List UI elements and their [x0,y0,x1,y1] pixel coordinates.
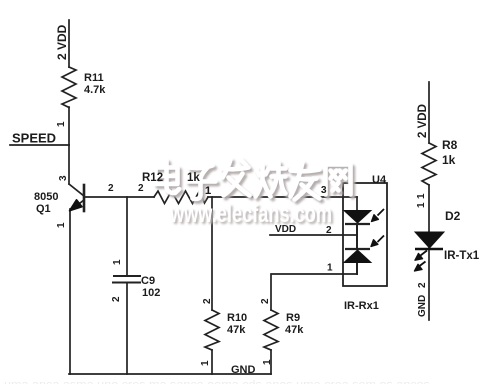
capacitor C9 [114,275,140,277]
svg-text:GND: GND [417,295,428,317]
wire SPEED stub [10,144,69,146]
svg-text:uma anca asma uno cres ma sanc: uma anca asma uno cres ma sanca oema cds… [4,379,431,384]
wire R10 to rail [211,350,213,374]
svg-text:1k: 1k [442,153,456,167]
U4 top diode arrow [378,209,385,216]
U4 box [343,183,387,286]
svg-text:R9: R9 [286,312,300,324]
wire VDD right top [428,82,430,143]
wire C9 to rail [126,283,128,374]
U4 bottom diode arrow [378,236,385,243]
resistor R10 [205,310,219,350]
svg-text:2: 2 [202,298,213,304]
svg-text:1: 1 [200,360,211,366]
svg-text:SPEED: SPEED [12,131,56,146]
transistor Q1 emitter diagonal [71,200,84,210]
svg-text:2: 2 [138,183,144,194]
watermark chinese characters (drawn, white with gray drop shadow) [156,160,354,231]
svg-text:1: 1 [56,222,67,228]
watermark glyph bodies [156,160,351,229]
wire U4 pin1 to R9 [271,274,357,310]
svg-text:3: 3 [321,185,327,196]
svg-text:D2: D2 [445,209,461,223]
resistor R11 [62,67,76,108]
svg-text:IR-Tx1: IR-Tx1 [444,250,480,262]
wire U4 internal bottom [356,262,358,274]
wire D2 to GND [428,248,430,320]
transistor Q1 base bar [83,185,86,211]
svg-text:1: 1 [205,185,211,197]
svg-text:www.elecfans.com: www.elecfans.com [169,200,332,228]
resistor R9 [264,310,278,350]
transistor Q1 collector wire [84,196,154,198]
wire node to C9 [126,197,128,275]
svg-text:2: 2 [260,298,271,304]
svg-text:IR-Rx1: IR-Rx1 [344,300,379,312]
photodiode U4 bottom diode [344,249,371,263]
wire U4 pin3 internal [356,197,358,211]
svg-text:C9: C9 [141,275,155,287]
svg-text:8050: 8050 [34,191,58,203]
svg-text:2: 2 [417,282,428,288]
wire R11 to SPEED node [68,107,70,145]
svg-text:R8: R8 [442,138,458,152]
wire node to R10 [211,197,213,310]
svg-text:Q1: Q1 [36,203,51,215]
svg-text:R11: R11 [84,72,104,84]
svg-text:2 VDD: 2 VDD [55,24,69,60]
svg-text:102: 102 [142,287,160,299]
transistor Q1 base lead diagonal [69,184,84,196]
svg-text:R10: R10 [227,312,247,324]
wire ground rail [69,373,271,375]
wire VDD top to R11 [68,20,70,67]
bottom edge cropped text smudge [4,379,431,384]
svg-text:1: 1 [262,359,273,365]
wire U4 internal mid [356,224,358,249]
svg-text:1: 1 [56,121,67,127]
resistor R8 [422,143,436,185]
svg-text:2 VDD: 2 VDD [417,104,429,138]
svg-text:2: 2 [111,296,122,302]
svg-text:1: 1 [416,193,427,199]
watermark glyph shadows [158,162,353,230]
diode D2 [415,232,444,249]
resistor R12 [154,191,208,204]
svg-text:U4: U4 [372,174,387,186]
svg-text:47k: 47k [285,324,304,336]
svg-text:GND: GND [231,364,256,376]
diode D2 emit arrow 1 [421,251,428,256]
svg-text:1: 1 [327,263,333,274]
svg-text:1: 1 [416,202,427,208]
svg-text:2: 2 [108,183,114,194]
svg-text:3: 3 [58,175,69,181]
svg-text:1: 1 [112,259,123,265]
wire VDD stub to U4 pin2 [270,234,357,236]
svg-text:1k: 1k [187,172,200,184]
svg-text:47k: 47k [227,324,246,336]
diode D2 emit arrow 2 [420,262,426,267]
svg-text:4.7k: 4.7k [84,84,106,96]
wire R9 to rail [270,350,272,374]
wire SPEED to Q1 base [68,145,70,184]
photodiode U4 top diode [344,211,371,225]
wire Q1 emitter down [69,209,71,374]
wire R8 to D2 [428,185,430,233]
svg-text:R12: R12 [142,172,163,184]
wire R12 to U4 pin3 [208,196,357,198]
transistor Q1 emitter arrow [70,200,83,211]
